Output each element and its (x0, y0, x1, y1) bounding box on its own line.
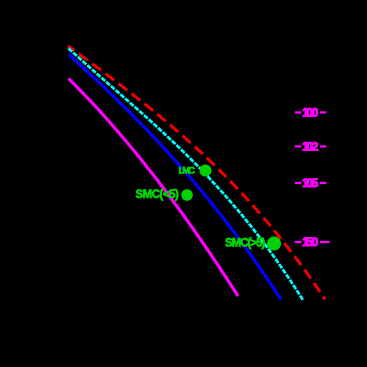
curve magenta solid (fourth model curve) (69, 79, 239, 297)
data point SMC(<5) (181, 189, 193, 201)
right axis tick label -10.5 (295, 178, 326, 190)
right axis tick label -10.0 (295, 108, 326, 120)
svg-text:SMC(>5): SMC(>5) (225, 238, 265, 250)
curve red dashed (top model curve) (68, 46, 325, 299)
curve cyan dotted (second model curve) (69, 48, 304, 300)
right axis tick label -15.0 (295, 237, 330, 249)
svg-text:SMC(<5): SMC(<5) (136, 189, 179, 201)
svg-text:10.0: 10.0 (302, 108, 318, 120)
svg-text:LMC: LMC (179, 166, 196, 177)
data point LMC (200, 165, 212, 177)
svg-text:10.2: 10.2 (302, 142, 318, 154)
right axis tick label -10.2 (295, 142, 326, 154)
data point SMC(>5) (267, 237, 281, 251)
curve blue solid (third model curve) (69, 54, 282, 299)
svg-text:15.0: 15.0 (302, 237, 318, 249)
